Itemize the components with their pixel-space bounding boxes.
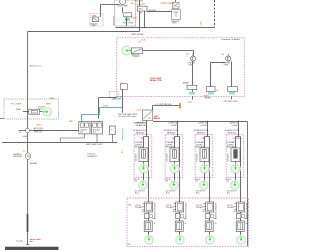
svg-text:F1B D/7h: F1B D/7h — [233, 138, 243, 140]
svg-text:MPG/NJK: MPG/NJK — [149, 10, 157, 12]
svg-text:COIL ON: COIL ON — [196, 205, 202, 207]
svg-text:PUMP: PUMP — [131, 18, 138, 20]
svg-text:F20-2: F20-2 — [36, 124, 42, 126]
svg-text:OXY SEN: OXY SEN — [115, 96, 123, 98]
svg-text:ENGINE: ENGINE — [205, 98, 211, 100]
svg-text:CONTROL: CONTROL — [227, 144, 234, 146]
svg-text:SMFTL SLEEP GD SIP: SMFTL SLEEP GD SIP — [86, 144, 103, 146]
svg-text:B+: B+ — [215, 223, 217, 225]
svg-text:CONTROL: CONTROL — [166, 144, 173, 146]
svg-text:SPL/CE: SPL/CE — [165, 179, 170, 181]
svg-text:130: 130 — [227, 181, 230, 183]
svg-text:F1B: F1B — [128, 204, 131, 206]
svg-text:IGNITION COIL DRIVER: IGNITION COIL DRIVER — [153, 203, 155, 221]
svg-text:w/SHIFT SOL: w/SHIFT SOL — [137, 123, 146, 125]
svg-text:Powertrain Ctrl Module: Powertrain Ctrl Module — [222, 38, 240, 41]
svg-text:C/MTR PWR: C/MTR PWR — [160, 3, 172, 5]
svg-text:FUEL PUMP FEED CIRCUIT: FUEL PUMP FEED CIRCUIT — [118, 114, 138, 116]
svg-text:SOLENOID: SOLENOID — [136, 153, 138, 162]
svg-text:130: 130 — [196, 181, 199, 183]
svg-text:DRIVER 1: DRIVER 1 — [133, 56, 140, 58]
svg-text:note: note — [30, 240, 34, 243]
svg-text:INJECTOR: INJECTOR — [131, 54, 140, 56]
svg-text:PU- JUMP: PU- JUMP — [11, 104, 22, 106]
svg-text:B 12: B 12 — [93, 132, 96, 134]
svg-text:B/+ (per): B/+ (per) — [17, 240, 24, 242]
svg-text:C2: C2 — [110, 130, 112, 132]
svg-text:SOLENOID: SOLENOID — [228, 153, 230, 162]
svg-text:IGNITION COIL DRIVER: IGNITION COIL DRIVER — [184, 203, 186, 221]
svg-text:COIL ON: COIL ON — [135, 205, 141, 207]
svg-text:COIL ON: COIL ON — [166, 205, 172, 207]
svg-text:DG/OG: DG/OG — [103, 106, 109, 108]
svg-text:IGNITION COIL DRIVER: IGNITION COIL DRIVER — [245, 203, 247, 221]
svg-text:C237 C244: C237 C244 — [135, 0, 143, 2]
svg-text:THROTTLE: THROTTLE — [34, 132, 42, 134]
svg-text:To Fuel Pump: To Fuel Pump — [121, 128, 123, 141]
svg-text:SOLENOID D/C (W): SOLENOID D/C (W) — [194, 130, 209, 132]
svg-text:C113: C113 — [137, 109, 141, 111]
svg-text:130: 130 — [166, 181, 169, 183]
svg-text:30: 30 — [139, 41, 141, 43]
svg-text:SOLENOID D/C (W): SOLENOID D/C (W) — [164, 130, 179, 132]
svg-text:SOLENOID D/C (W): SOLENOID D/C (W) — [133, 130, 148, 132]
svg-text:JMP2: JMP2 — [45, 104, 51, 106]
svg-text:COIL ON: COIL ON — [227, 205, 233, 207]
svg-text:SOLENOID: SOLENOID — [167, 153, 169, 162]
svg-text:C2: C2 — [216, 90, 218, 92]
svg-text:SPL/CE: SPL/CE — [195, 179, 200, 181]
svg-text:C115 JOINT CONN: C115 JOINT CONN — [223, 101, 238, 103]
svg-text:RELAY: RELAY — [154, 117, 161, 120]
svg-text:CONTROL: CONTROL — [196, 144, 203, 146]
svg-text:S/C JOINT CO: S/C JOINT CO — [166, 191, 177, 193]
svg-text:B+: B+ — [246, 223, 248, 225]
svg-text:ENGINE OIL: ENGINE OIL — [13, 154, 22, 156]
svg-text:B+: B+ — [185, 223, 187, 225]
svg-text:SOLENOID D/C (W): SOLENOID D/C (W) — [225, 130, 240, 132]
svg-text:S/C JOINT CO: S/C JOINT CO — [196, 191, 207, 193]
svg-text:LOW SIDE: LOW SIDE — [188, 63, 195, 65]
svg-text:SPL/CE: SPL/CE — [134, 179, 139, 181]
svg-text:B+: B+ — [154, 223, 156, 225]
svg-text:w/SHIFT SOL: w/SHIFT SOL — [168, 123, 177, 125]
svg-text:130: 130 — [135, 181, 138, 183]
svg-text:SOLENOID: SOLENOID — [197, 153, 199, 162]
svg-text:IGNITION COIL DRIVER: IGNITION COIL DRIVER — [214, 203, 216, 221]
svg-text:RELAY CTRL: RELAY CTRL — [150, 79, 163, 82]
svg-text:SPL/CE: SPL/CE — [226, 179, 231, 181]
svg-text:SENSOR: SENSOR — [80, 129, 86, 131]
svg-text:0.5 PU/WT: 0.5 PU/WT — [135, 4, 146, 6]
svg-text:F1B: F1B — [128, 244, 131, 246]
svg-text:PRESSURE: PRESSURE — [13, 156, 21, 158]
svg-text:WIDE OPEN: WIDE OPEN — [34, 130, 43, 132]
svg-text:WT: WT — [140, 12, 142, 14]
svg-text:w/SHIFT SOL: w/SHIFT SOL — [198, 123, 207, 125]
svg-text:C137: C137 — [200, 21, 202, 25]
svg-text:w/SHIFT SOL: w/SHIFT SOL — [229, 123, 238, 125]
svg-text:FUEL INJ: FUEL INJ — [91, 23, 98, 25]
svg-text:WD: WD — [69, 121, 73, 123]
svg-text:C137: C137 — [187, 102, 192, 104]
svg-text:S/C JOINT CO: S/C JOINT CO — [135, 191, 146, 193]
svg-text:CONN: CONN — [49, 98, 53, 100]
svg-text:CMP/CKM SEN: CMP/CKM SEN — [131, 34, 144, 36]
svg-text:YEL: YEL — [131, 3, 134, 5]
svg-text:PUMP CHKR: PUMP CHKR — [123, 22, 134, 24]
svg-text:PUMP: PUMP — [91, 25, 96, 27]
svg-text:CONTROL: CONTROL — [135, 144, 142, 146]
svg-text:S/C JOINT CO: S/C JOINT CO — [227, 191, 238, 193]
svg-text:K3: K3 — [186, 54, 188, 56]
svg-text:MODU: MODU — [204, 96, 210, 98]
svg-text:275: 275 — [148, 118, 151, 120]
svg-text:C4: C4 — [120, 150, 123, 152]
svg-text:FUEL PUMP: FUEL PUMP — [118, 6, 129, 8]
